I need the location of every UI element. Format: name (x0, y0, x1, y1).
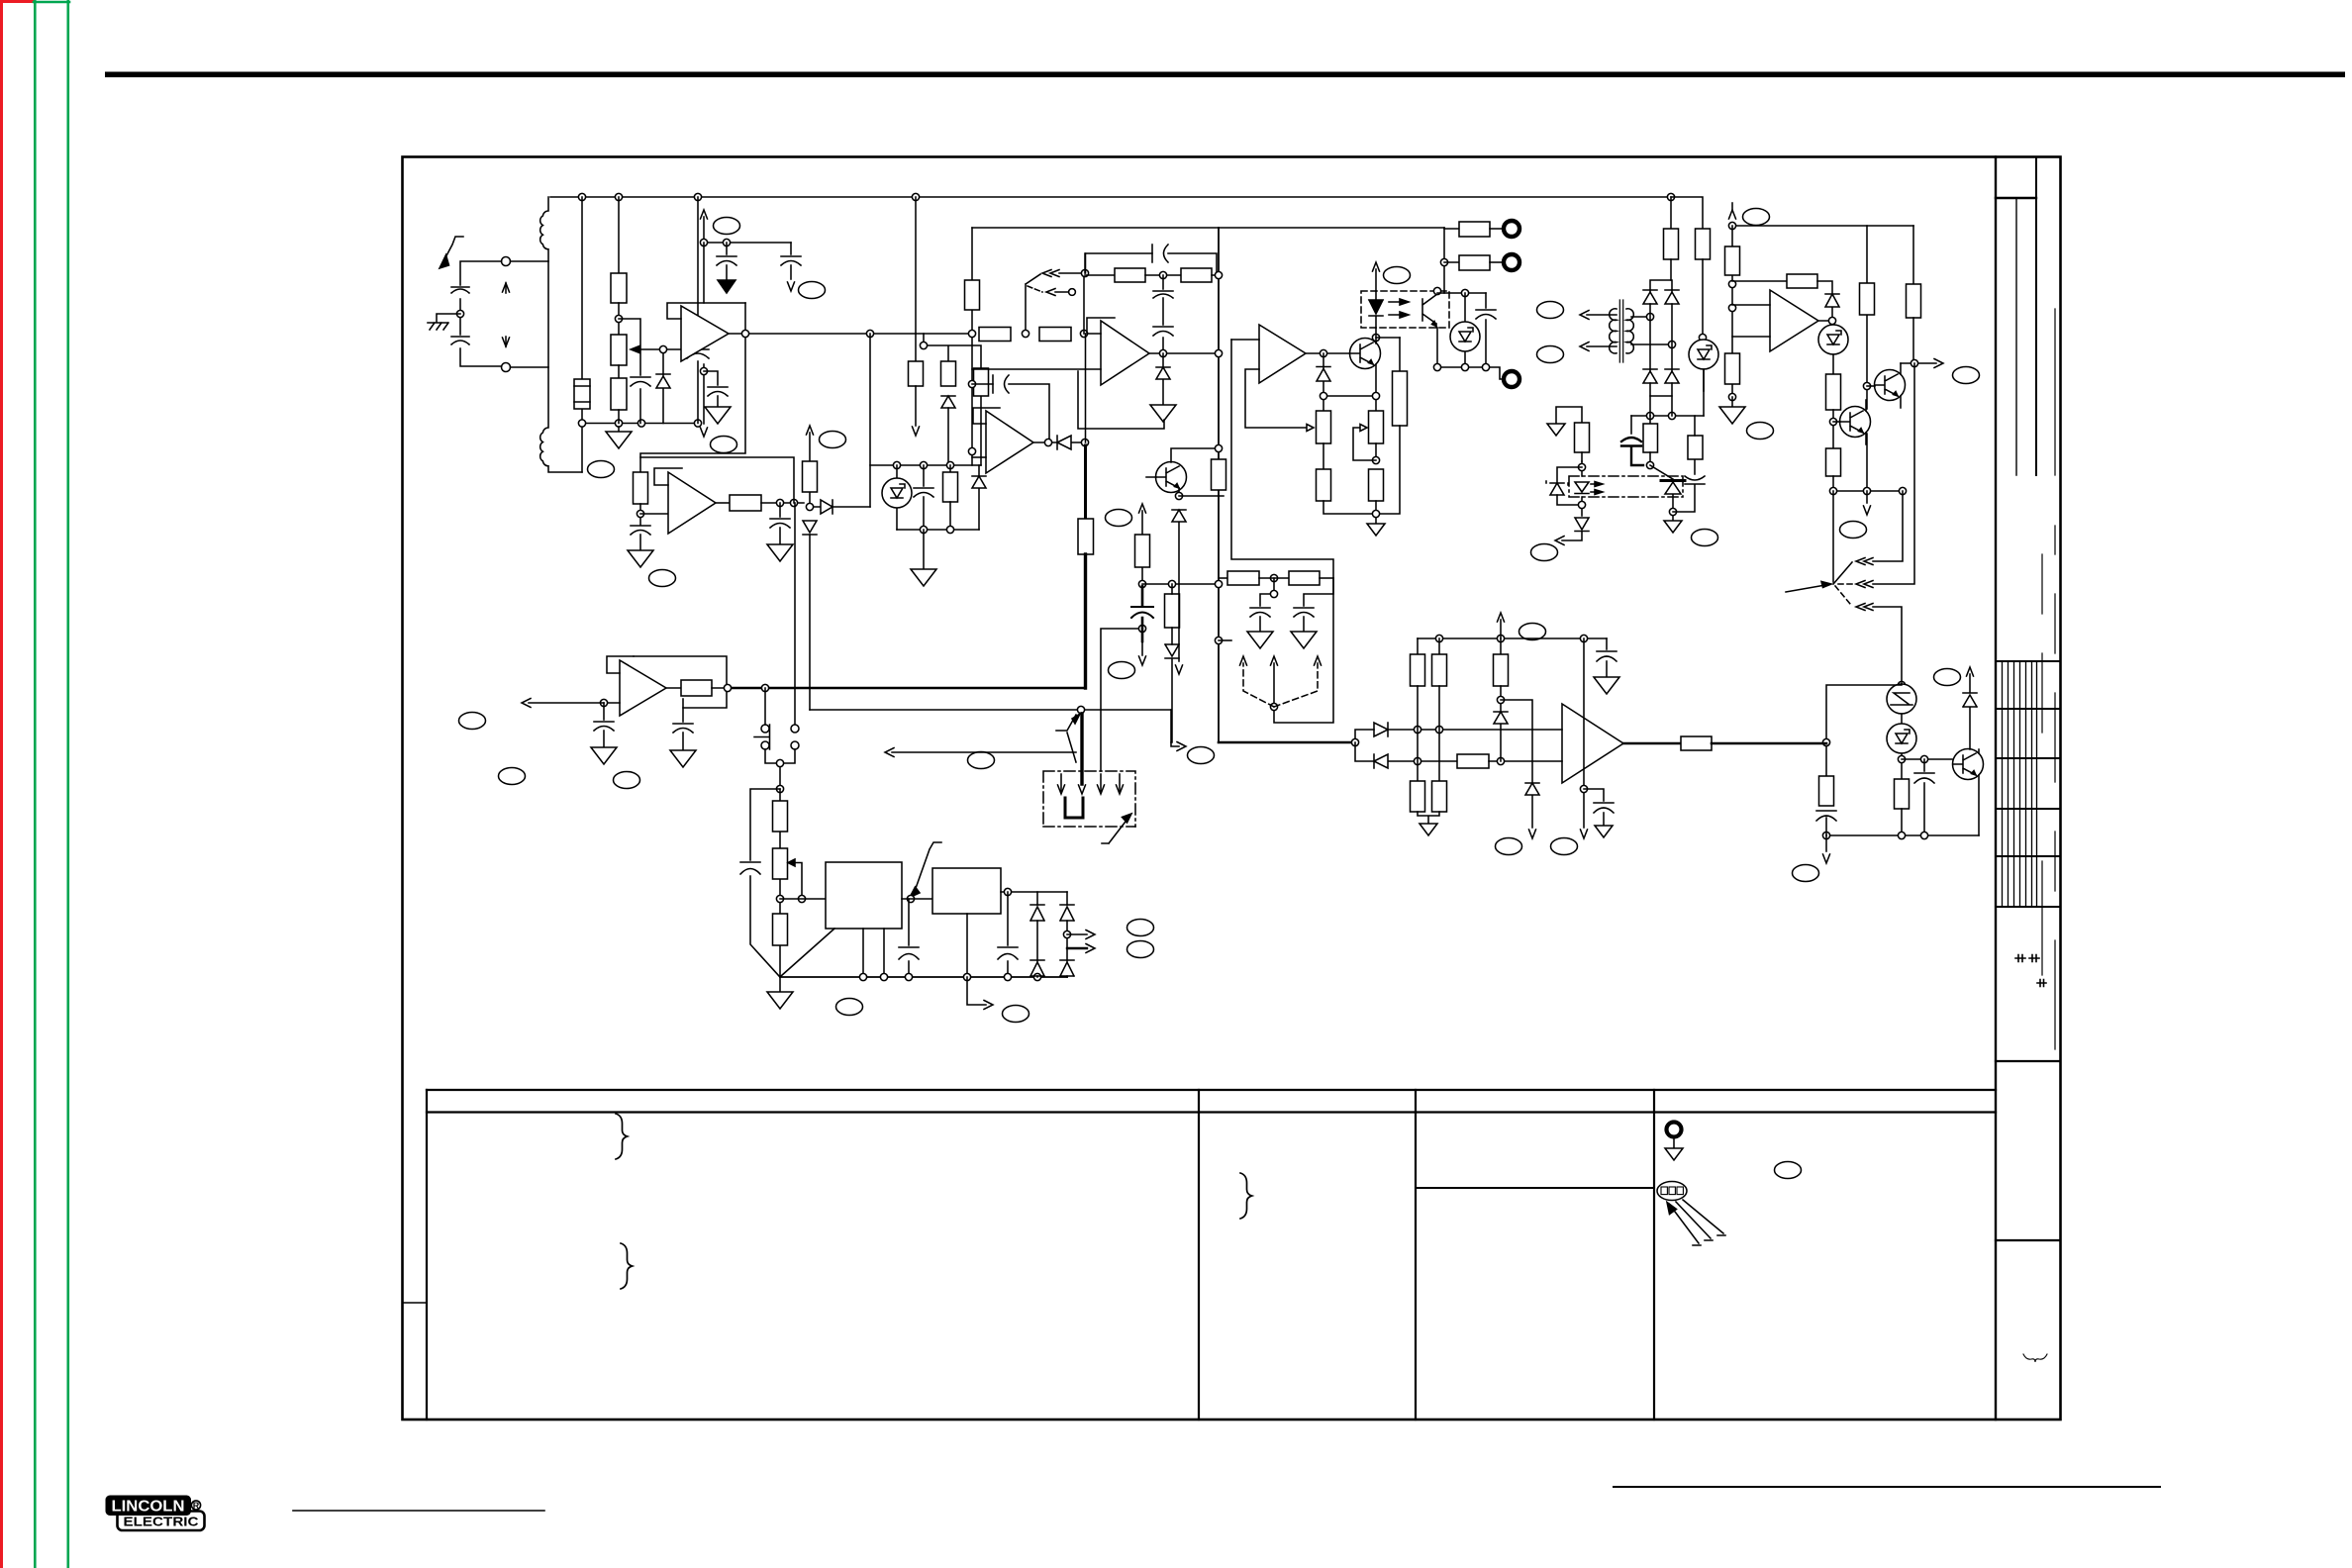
ground (1595, 826, 1613, 837)
input terminal 1 (502, 257, 511, 266)
reference diode (656, 353, 670, 424)
fuse (574, 379, 590, 409)
emitter drop (1436, 328, 1438, 367)
side panel revision grid (1996, 661, 2060, 907)
node (1081, 439, 1088, 445)
balloon (711, 437, 737, 453)
brace 3 (1240, 1173, 1252, 1219)
filter cap column (697, 197, 699, 424)
ground (1594, 677, 1619, 694)
IC1 ground legs (781, 929, 884, 977)
balloon (820, 432, 846, 448)
input resistor col 2 (1438, 638, 1440, 654)
svg-text:R: R (193, 1501, 200, 1511)
pot (773, 848, 788, 879)
diode (1317, 353, 1330, 411)
divider resistor R-bot (611, 378, 627, 410)
zener clamp loop (1557, 467, 1582, 516)
wire (640, 513, 668, 515)
aux arrow (967, 977, 986, 1005)
gate drive wire (810, 709, 1171, 711)
balloon (1127, 920, 1154, 936)
supply arrow op-amp A (703, 217, 705, 243)
brace 1 (616, 1114, 628, 1159)
collector wire (1376, 337, 1400, 339)
secondary taps (1631, 317, 1672, 344)
trim pot (611, 335, 627, 365)
adjust pointer (914, 842, 941, 894)
supply wire (704, 242, 791, 244)
bridge rectifier (1650, 280, 1672, 396)
op-amp F (1770, 290, 1818, 351)
diode (941, 396, 955, 408)
arrow down (788, 282, 795, 291)
connector pin dashed l (1243, 663, 1274, 707)
bus resistor (965, 280, 980, 310)
capacitor (1152, 245, 1168, 262)
terminal feed column (1443, 228, 1445, 293)
brace 2 (621, 1243, 633, 1289)
input resistor col 1 (1417, 638, 1419, 654)
aux transformer T2 (1610, 309, 1617, 353)
bypass cap branch (619, 319, 640, 424)
diode (1494, 712, 1508, 761)
transformer T1 secondary lead (581, 197, 583, 472)
balloon (649, 570, 676, 587)
supply column x818 (809, 433, 811, 710)
wire input loop (460, 261, 502, 366)
driver transistor Q1 (1350, 339, 1381, 369)
pass transistor Q2 (1840, 407, 1871, 438)
terminal ring 1 (1504, 221, 1519, 237)
node (618, 303, 620, 335)
footer rule left (293, 1510, 544, 1512)
balloon (1747, 423, 1774, 440)
wire (902, 898, 932, 900)
nodes (776, 895, 783, 902)
triac opto box (1569, 476, 1683, 497)
op-amp G feedback loop (634, 656, 727, 708)
output resistor 2 (1444, 261, 1459, 263)
balloon (1109, 662, 1135, 679)
chassis ground (428, 314, 460, 330)
branch to op-amp B (640, 303, 745, 472)
node (806, 503, 813, 510)
shunt reference TL431 (896, 465, 898, 530)
ground (767, 544, 793, 561)
node (1081, 269, 1088, 276)
regulator input wire (780, 898, 826, 900)
op-amp A supply pin (703, 243, 705, 424)
pushbutton blade (754, 725, 770, 749)
contactor arm (1056, 715, 1076, 762)
ground (718, 280, 735, 293)
cap (603, 703, 605, 720)
triac (1661, 479, 1685, 482)
decoupling cap (726, 243, 728, 254)
driver transistor Q3 (1875, 370, 1906, 401)
ground rail (780, 976, 1067, 978)
balloon (1003, 1006, 1029, 1023)
capacitor input upper (451, 287, 469, 293)
ref divider column (1731, 226, 1733, 397)
selector pointer (1786, 585, 1825, 592)
op-amp D output (1033, 441, 1057, 443)
collector resistor (1912, 226, 1914, 284)
balloon (1384, 267, 1411, 284)
ramp resistor b (1039, 328, 1071, 342)
plus input path (1355, 730, 1374, 742)
opto transistor (1422, 291, 1437, 328)
legend connector oval (1657, 1182, 1725, 1246)
side panel section rules (1996, 1061, 2060, 1240)
optocoupler box (1361, 291, 1449, 328)
capacitor thick (1141, 586, 1144, 641)
triac feed (1650, 465, 1673, 479)
vref bottom rail (897, 529, 979, 531)
ground (1367, 524, 1385, 536)
ground (705, 407, 731, 424)
feedback riser (1083, 273, 1085, 334)
resistor (949, 465, 951, 472)
capacitor (631, 526, 650, 535)
wiper (788, 859, 795, 866)
resistor (1895, 779, 1910, 809)
ramp resistor a (979, 328, 1011, 342)
diode (1374, 723, 1562, 736)
cap (1923, 759, 1925, 771)
balloon (1692, 530, 1718, 546)
shunt ref TL431 (1689, 340, 1718, 369)
snubber cap (1485, 293, 1487, 367)
terminal ring 2 (1504, 254, 1519, 270)
main drawing frame (403, 157, 2061, 1421)
arrow (1139, 656, 1146, 665)
rectifier column 2 (1066, 892, 1068, 977)
page color registration bars (0, 0, 34, 1568)
remote wire arrow (529, 702, 604, 704)
aux rail (1631, 415, 1704, 417)
ramp cap branch (972, 384, 1049, 442)
output sense drop (1171, 710, 1179, 746)
IC2 ground leg (966, 914, 968, 977)
op-amp C output (1149, 352, 1217, 354)
cap (1816, 811, 1836, 821)
ground (591, 747, 617, 764)
footer rule right (1614, 1486, 2160, 1488)
rectifier column 1 (1036, 892, 1038, 977)
balloon (799, 282, 826, 299)
ground (618, 427, 620, 432)
ref column (1583, 638, 1585, 828)
balloon (968, 752, 995, 769)
balloon (1127, 941, 1154, 958)
output cap (1007, 892, 1009, 977)
balloon (614, 772, 640, 789)
snubber rail (1437, 292, 1486, 294)
ground (628, 550, 653, 567)
balloon (1496, 838, 1522, 855)
zener clamp circle (1898, 681, 1905, 688)
emitter rail (1826, 834, 1979, 836)
emission arrows (1591, 484, 1599, 492)
output transistor Q4 (1953, 749, 1984, 780)
node (776, 785, 783, 792)
nodes (1063, 931, 1070, 937)
range selector (1832, 491, 1834, 582)
capacitor (631, 377, 650, 386)
cap branch (1584, 789, 1604, 801)
decoupling cap 2 (790, 243, 792, 254)
diode (1057, 436, 1081, 449)
op-amp G minus input (604, 702, 620, 704)
top supply rail (550, 196, 1671, 198)
sense feed wire (1101, 629, 1142, 771)
side panel brace (2023, 1354, 2047, 1362)
connector dash-dot box (1043, 771, 1135, 827)
feedback column (1826, 685, 1902, 776)
bus top wire (972, 227, 1444, 229)
top rule (105, 72, 2345, 78)
connector pin dashed r (1274, 663, 1318, 707)
regulator IC1 (826, 862, 902, 929)
return wire arrow (892, 751, 1076, 753)
supply arrow (1500, 620, 1502, 638)
output cap (779, 503, 781, 517)
ground (923, 530, 925, 569)
balloon (1934, 669, 1961, 686)
balloon (1519, 624, 1546, 640)
balloon (1840, 522, 1867, 539)
ground (1247, 632, 1273, 648)
op-amp C minus input (972, 368, 1101, 370)
supply feed resistor (1670, 197, 1672, 229)
op-amp G (620, 660, 666, 716)
node (456, 310, 463, 317)
balloon (1531, 544, 1558, 561)
balloon (714, 218, 740, 235)
resistor (1826, 374, 1841, 410)
minus input loop (1245, 369, 1307, 428)
diode to feedback (814, 500, 870, 514)
node (578, 193, 585, 200)
feedback pot 1 (1317, 411, 1331, 443)
op-amp E (1259, 325, 1306, 383)
node (1138, 580, 1145, 587)
resistor (1135, 535, 1150, 567)
clamp diode column (1963, 674, 1977, 749)
side panel inner rule (2015, 198, 2017, 475)
pot wiper wire (636, 348, 680, 350)
zener shunt (1464, 293, 1466, 367)
thick feed into connector (1080, 714, 1083, 784)
supply column x1886 (1866, 226, 1868, 491)
divider wire (1142, 583, 1219, 585)
branch to divider (1501, 700, 1532, 783)
output diode to ground (1156, 353, 1170, 405)
bus resistor (1078, 519, 1094, 554)
plus input (1231, 339, 1259, 341)
op-amp A output wire (729, 333, 972, 335)
ground (1672, 516, 1674, 521)
op-amp G output wire (728, 687, 1086, 690)
diode (1825, 294, 1839, 321)
regulator IC2 (932, 868, 1001, 914)
ground (670, 750, 696, 767)
node (639, 504, 641, 525)
balloon (1537, 346, 1564, 363)
node (659, 345, 666, 352)
shunt TL431 c (1901, 714, 1903, 724)
bridge legs (1650, 396, 1672, 416)
connector pin solid (1273, 663, 1275, 707)
node (907, 895, 914, 902)
pwm bus vertical (1085, 253, 1087, 442)
op-amp A (681, 306, 729, 361)
table inner rule (1416, 1187, 1654, 1189)
resistor (974, 368, 989, 396)
ground (1420, 824, 1437, 835)
node (1578, 501, 1585, 508)
base wire (1902, 758, 1952, 760)
resistor (773, 801, 788, 832)
base bias wire (1323, 395, 1376, 397)
balloon (1793, 865, 1819, 882)
resistor (1819, 776, 1834, 806)
sense divider rail (582, 423, 698, 425)
parts table frame (427, 1090, 1996, 1113)
filter cap b (1304, 578, 1333, 606)
op-amp B input resistor (634, 472, 648, 504)
resistor column (1165, 594, 1180, 628)
filter cap a (1260, 578, 1274, 606)
supply flag resistor (915, 334, 917, 361)
vref rail (870, 464, 981, 466)
pushbutton wiring (765, 688, 795, 789)
feedback loop (640, 457, 794, 503)
comparator input rail (1418, 637, 1607, 639)
balloon (1953, 367, 1980, 384)
remote connector loop (1231, 340, 1333, 723)
side panel header cell (1996, 197, 2036, 199)
op-amp C (1101, 321, 1149, 385)
input power arrow (442, 237, 463, 263)
feedback cap run (1085, 253, 1217, 275)
aux supply outputs (1067, 933, 1087, 935)
diode (1525, 783, 1539, 828)
op-amp G output resistor (666, 687, 681, 689)
comp loop riser (1078, 371, 1164, 429)
side panel rotated-text strokes (2042, 309, 2055, 1049)
balloon (459, 713, 486, 730)
star ground (779, 977, 781, 992)
enable wire (1901, 362, 1936, 364)
pwm ramp switch (1026, 274, 1040, 334)
comp cap column (1162, 275, 1164, 353)
divider resistor R-top (618, 197, 620, 273)
feedback transistor (1156, 462, 1187, 493)
balloon (1743, 209, 1770, 226)
balloon (836, 999, 863, 1016)
vref feed (924, 334, 981, 465)
leads (1146, 448, 1219, 496)
input terminal 2 (502, 363, 511, 372)
capacitor (923, 465, 925, 486)
thick U link (1065, 798, 1083, 818)
input resistor (1416, 760, 1457, 762)
resistor (773, 914, 788, 945)
svg-text:ELECTRIC: ELECTRIC (124, 1515, 200, 1529)
feedback resistor chain (1085, 274, 1115, 276)
regulator ref column (779, 789, 781, 977)
reg resistor (1671, 197, 1703, 229)
op-amp A bypass cap (704, 371, 718, 385)
threshold column (1500, 638, 1502, 654)
ground (1150, 405, 1176, 422)
cap between regs (908, 899, 910, 977)
side panel divider column (2035, 157, 2037, 476)
op-amp B output (716, 502, 730, 504)
main feedback bus (1218, 228, 1220, 742)
op-amp D inputs (972, 456, 986, 458)
primary arrows (1587, 315, 1617, 346)
rail drop (915, 197, 917, 334)
resistor (803, 461, 818, 492)
ground (1291, 632, 1317, 648)
op-amp E output (1306, 352, 1350, 354)
opto collector node (1433, 287, 1440, 294)
arrow tap (1866, 491, 1868, 503)
diode (1374, 754, 1416, 768)
lincoln electric logo (106, 1496, 205, 1531)
divider resistor a (1219, 577, 1227, 579)
node (761, 684, 768, 691)
capacitor input lower (451, 337, 469, 344)
balloon (1537, 302, 1564, 319)
terminal ring 3 (1504, 371, 1519, 387)
resistor (1826, 448, 1841, 476)
node (1270, 574, 1277, 581)
opto arrows (1389, 302, 1404, 315)
pushbutton contacts (761, 725, 769, 733)
minus input path (1355, 742, 1374, 761)
bottom resistors (1411, 781, 1425, 812)
balloon (499, 768, 526, 785)
connector pins (1061, 774, 1120, 791)
connector pointer (1102, 818, 1128, 843)
corner to opamp H (1219, 741, 1355, 744)
opto LED (1575, 482, 1589, 494)
vref node row (1732, 225, 1913, 227)
diode (1172, 510, 1186, 661)
shunt TL431 b (1832, 324, 1834, 326)
pwm output wire (1623, 742, 1681, 745)
rail end cap (1606, 638, 1608, 649)
feedback drop (869, 334, 871, 507)
frame notch (403, 1302, 428, 1304)
main bus vertical x982 (971, 228, 973, 465)
cap 2 (682, 708, 684, 722)
aux sense resistor (1556, 407, 1582, 424)
ground (1731, 397, 1733, 407)
arrow down (701, 428, 708, 437)
bottom wire (1437, 367, 1504, 379)
left cap branch (750, 789, 780, 976)
balloon (588, 461, 615, 478)
gate diode (1562, 518, 1589, 540)
op-amp H (1562, 704, 1623, 783)
balloon (1551, 838, 1578, 855)
